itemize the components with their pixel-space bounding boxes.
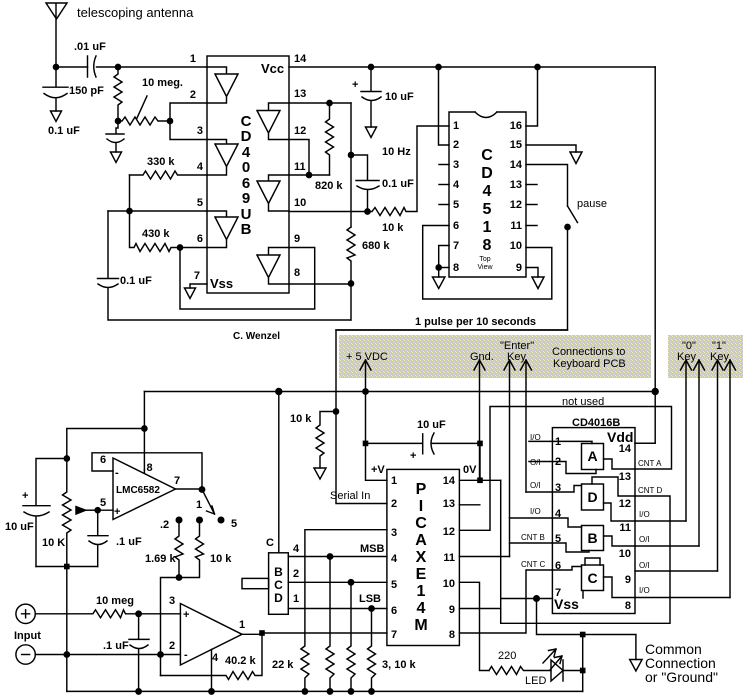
svg-text:CNT D: CNT D: [638, 486, 663, 495]
capacitor .01uF: [88, 56, 97, 77]
chip CD4016B box: [552, 428, 635, 614]
wire pin 15: [526, 145, 576, 152]
svg-text:MSB: MSB: [360, 543, 385, 555]
arrow Enter key 2: [521, 360, 532, 492]
svg-text:5: 5: [453, 199, 459, 211]
wire rail left end down to op-amp V+: [143, 392, 145, 471]
svg-text:1: 1: [555, 436, 561, 448]
ground: [570, 152, 582, 164]
svg-text:8: 8: [294, 267, 300, 279]
svg-text:13: 13: [619, 471, 631, 483]
svg-text:0V: 0V: [463, 464, 477, 476]
switch gain lever: [202, 490, 215, 515]
svg-text:P: P: [416, 481, 427, 498]
svg-text:+ 5 VDC: + 5 VDC: [346, 351, 388, 363]
svg-text:5: 5: [100, 497, 106, 509]
svg-text:12: 12: [294, 125, 306, 137]
node 10kA rail: [327, 689, 332, 694]
capacitor .1uF input: [129, 614, 149, 692]
svg-text:View: View: [477, 264, 493, 271]
node .1uF rail: [136, 689, 141, 694]
svg-text:7: 7: [194, 270, 200, 282]
ground: [185, 288, 196, 299]
resistor 10k A: [326, 557, 334, 692]
node rail pin2 CD4518: [436, 64, 441, 69]
node 430k right: [177, 245, 182, 250]
svg-text:B: B: [241, 221, 252, 238]
svg-text:3: 3: [453, 159, 459, 171]
label Top View: [477, 256, 493, 271]
svg-text:A: A: [415, 532, 427, 549]
node 0V square: [477, 478, 483, 484]
wire C output: [604, 577, 636, 598]
wire A lower step: [552, 462, 596, 474]
node 680k bottom: [348, 281, 353, 286]
wire pin14 0V: [459, 479, 500, 481]
svg-text:8: 8: [625, 600, 631, 612]
svg-text:0: 0: [242, 159, 250, 176]
node 10kC rail: [369, 689, 374, 694]
node 820k top: [327, 100, 332, 105]
svg-text:M: M: [414, 617, 427, 634]
svg-text:820 k: 820 k: [315, 180, 343, 192]
node serial 10k tap: [333, 409, 338, 414]
wire B input: [552, 518, 581, 527]
svg-text:5: 5: [483, 201, 492, 218]
svg-text:11: 11: [619, 522, 631, 534]
svg-text:-: -: [184, 649, 188, 661]
svg-text:6: 6: [391, 605, 397, 617]
svg-text:Connections to: Connections to: [552, 346, 625, 358]
node output square: [259, 630, 265, 636]
svg-text:A: A: [587, 448, 597, 464]
potentiometer 10K: [63, 459, 72, 567]
svg-text:Top: Top: [479, 256, 490, 263]
arrow 0 key 1: [681, 360, 692, 521]
node pin8: [436, 265, 441, 270]
resistor 40.2k feedback: [161, 634, 263, 679]
node input minus tie: [64, 652, 69, 657]
wire LSB pin1: [288, 608, 387, 610]
wire pin 10 to LED: [459, 582, 489, 670]
svg-text:14: 14: [510, 159, 523, 171]
node rail 10uF: [368, 64, 373, 69]
svg-text:O/I: O/I: [639, 561, 650, 570]
svg-text:O/I: O/I: [530, 458, 541, 467]
svg-text:3: 3: [391, 527, 397, 539]
wire C bottom: [582, 591, 584, 599]
svg-text:+: +: [183, 609, 189, 621]
svg-text:9: 9: [449, 604, 455, 616]
node 10meg right: [167, 118, 172, 123]
chip name CD4518 vertical: [481, 147, 493, 254]
svg-text:1: 1: [190, 53, 196, 65]
wire pin6 to pin9 tie: [180, 248, 315, 310]
node output: [199, 487, 204, 492]
arrow Enter key 1: [504, 360, 515, 557]
ground: [433, 277, 445, 289]
node 10kB rail: [348, 689, 353, 694]
svg-text:2: 2: [169, 640, 175, 652]
switch letters: [587, 448, 597, 586]
svg-text:pause: pause: [577, 198, 607, 210]
svg-text:2: 2: [453, 139, 459, 151]
resistor 10k serial pulldown: [316, 412, 336, 469]
wire op-amp2 output: [242, 633, 387, 634]
svg-text:Key: Key: [710, 351, 729, 363]
svg-text:12: 12: [619, 498, 631, 510]
svg-text:D: D: [274, 591, 283, 605]
node LED square: [580, 668, 586, 674]
svg-text:5: 5: [555, 533, 561, 545]
wire D input: [552, 486, 581, 493]
node 10uF right square: [477, 441, 483, 447]
svg-text:11: 11: [510, 220, 522, 232]
wire pin8 net: [289, 284, 351, 321]
wire pin 14 to pause switch: [526, 165, 568, 207]
LED D1: [551, 660, 563, 681]
wire pin 8: [439, 267, 449, 269]
svg-text:16: 16: [510, 120, 522, 132]
ground: [51, 111, 62, 122]
svg-text:8: 8: [449, 629, 455, 641]
inverter 2: [207, 140, 238, 176]
svg-text:8: 8: [483, 237, 492, 254]
svg-text:14: 14: [443, 475, 456, 487]
svg-text:4: 4: [197, 161, 204, 173]
node pin5: [127, 208, 132, 213]
wire 330k to pin5 node: [129, 175, 131, 211]
node pot top: [64, 456, 69, 461]
svg-text:1: 1: [417, 583, 426, 600]
svg-text:6: 6: [453, 220, 459, 232]
svg-text:10 uF: 10 uF: [385, 91, 414, 103]
svg-text:-: -: [115, 467, 119, 479]
svg-text:10 Hz: 10 Hz: [382, 146, 411, 158]
svg-text:13: 13: [443, 498, 455, 510]
wire C top notch: [585, 558, 600, 565]
switch tab BCD: [242, 578, 269, 588]
svg-text:Vss: Vss: [554, 596, 579, 612]
wire input minus: [35, 654, 160, 656]
inverter 3: [207, 211, 238, 248]
node gain node: [176, 575, 181, 580]
wire pin 5: [108, 210, 207, 212]
svg-text:C: C: [266, 537, 274, 549]
wire CD4518 pin16: [526, 67, 538, 126]
svg-text:.1 uF: .1 uF: [103, 640, 129, 652]
wire antenna to cap: [56, 66, 118, 68]
svg-text:13: 13: [510, 179, 522, 191]
svg-text:6: 6: [100, 454, 106, 466]
svg-text:D: D: [481, 165, 493, 182]
svg-text:7: 7: [391, 629, 397, 641]
wire feedback loop: [92, 453, 202, 490]
svg-text:C: C: [481, 147, 493, 164]
svg-text:LMC6582: LMC6582: [116, 485, 160, 496]
wire pot bottom tie: [36, 566, 98, 568]
pot wiper arrow: [85, 509, 98, 511]
resistor 10k C: [368, 609, 376, 692]
node rail right riser: [652, 389, 658, 395]
wire A output: [604, 459, 636, 469]
pin 4 stub: [439, 184, 449, 186]
op-amp U2: [180, 604, 242, 666]
svg-text:4: 4: [212, 652, 219, 664]
node op-amp2 inverting: [158, 652, 163, 657]
op-amp U1 LMC6582: [113, 458, 176, 520]
chip PICAXE14M box: [387, 469, 460, 645]
svg-text:.2: .2: [160, 519, 169, 531]
resistor 10 meg input: [35, 610, 138, 618]
pin 13 stub: [526, 184, 537, 186]
svg-text:430 k: 430 k: [142, 228, 170, 240]
arrow 0 key 2: [694, 360, 705, 546]
capacitor 10uF left: [23, 459, 67, 567]
node rail +V riser: [363, 389, 368, 394]
ground: [532, 277, 544, 289]
svg-text:3, 10 k: 3, 10 k: [382, 659, 417, 671]
svg-text:CNT C: CNT C: [521, 560, 546, 569]
svg-text:4: 4: [417, 600, 426, 617]
wire I/O row to 1 key: [635, 597, 730, 599]
switch pause lever: [568, 206, 578, 223]
node pin11: [306, 172, 311, 177]
svg-text:Input: Input: [14, 630, 41, 642]
wire A input: [552, 441, 592, 443]
svg-text:3: 3: [169, 595, 175, 607]
switch box C: [582, 565, 604, 591]
wire op-amp V+ pin8 touch: [143, 470, 145, 473]
svg-text:telescoping antenna: telescoping antenna: [77, 5, 194, 20]
svg-text:3: 3: [197, 125, 203, 137]
wire 0V riser segment: [479, 443, 481, 480]
wire branch to pot top: [67, 429, 145, 459]
op-amp chip CD4069UB box: [207, 56, 289, 293]
wire LED to common: [563, 670, 583, 672]
svg-text:CD4016B: CD4016B: [572, 417, 620, 429]
node pot bottom: [64, 564, 70, 570]
node op-amp supply branch: [142, 426, 147, 431]
node wiper: [95, 508, 100, 513]
chip BCD box: [269, 553, 289, 615]
svg-text:6: 6: [197, 233, 203, 245]
ground: [366, 127, 377, 138]
arrow +5VDC: [360, 360, 371, 392]
svg-text:C. Wenzel: C. Wenzel: [233, 331, 280, 342]
label Common Connection or Ground: [645, 641, 718, 685]
svg-text:10 k: 10 k: [290, 413, 312, 425]
svg-text:4: 4: [293, 543, 300, 555]
resistor 22k: [301, 530, 387, 692]
svg-text:330 k: 330 k: [147, 156, 175, 168]
svg-text:Vdd: Vdd: [607, 429, 633, 445]
svg-text:.01 uF: .01 uF: [74, 41, 106, 53]
svg-text:2: 2: [391, 498, 397, 510]
wire pin 7 Vss: [501, 598, 553, 600]
svg-text:B: B: [587, 530, 597, 546]
svg-text:0.1 uF: 0.1 uF: [120, 275, 152, 287]
node position 5: [218, 517, 224, 523]
svg-text:LSB: LSB: [359, 593, 381, 605]
pin 5 stub: [439, 204, 449, 206]
wire common to ground: [583, 635, 636, 660]
svg-text:2: 2: [190, 89, 196, 101]
svg-text:E: E: [416, 566, 427, 583]
svg-text:15: 15: [510, 139, 522, 151]
svg-text:1: 1: [391, 475, 397, 487]
svg-text:CNT A: CNT A: [638, 459, 662, 468]
node cap junction: [115, 64, 120, 69]
pin 1 stub: [529, 440, 552, 442]
node 10meg bottom: [115, 118, 120, 123]
wire 0V down leg: [501, 480, 670, 623]
node pause contact: [565, 224, 570, 229]
svg-text:2: 2: [555, 456, 561, 468]
wire Vss to common: [537, 599, 583, 635]
node 22k rail: [302, 689, 307, 694]
wire pause to serial in: [336, 227, 568, 504]
ground common: [630, 660, 642, 672]
callout line 10 meg: [137, 96, 147, 118]
capacitor 10uF top: [361, 67, 381, 127]
svg-text:Gnd.: Gnd.: [470, 351, 494, 363]
svg-text:8: 8: [147, 462, 153, 474]
resistor 820k: [326, 103, 334, 175]
arrow 1 key 1: [712, 360, 723, 571]
wire pin 9: [526, 268, 538, 278]
wire pins 7-8: [439, 246, 449, 278]
wire op-amp2 inverting input: [161, 654, 181, 656]
wire Vcc rail: [118, 66, 655, 68]
capacitor 0.1uF mid: [351, 155, 379, 212]
svg-text:9: 9: [516, 262, 522, 274]
svg-text:10: 10: [510, 240, 522, 252]
wire to op-amp2 plus: [139, 613, 181, 615]
resistor 430k: [130, 211, 181, 252]
wire gain node to inverting input: [161, 578, 180, 676]
switch box D: [582, 484, 604, 510]
svg-text:1: 1: [453, 120, 459, 132]
node input RC: [136, 611, 141, 616]
svg-text:14: 14: [294, 53, 307, 65]
wire +V riser: [366, 392, 387, 481]
resistor 330k: [130, 171, 208, 179]
svg-text:0.1 uF: 0.1 uF: [382, 178, 414, 190]
resistor 10 meg horizontal: [118, 117, 170, 125]
svg-text:+: +: [114, 506, 120, 518]
wire pin 3: [526, 491, 552, 493]
wire pin 9: [459, 608, 500, 610]
svg-text:12: 12: [443, 526, 455, 538]
svg-text:Keyboard PCB: Keyboard PCB: [553, 358, 626, 370]
wire pin 13 net: [289, 102, 351, 104]
banner top border: [336, 329, 568, 331]
svg-text:.1 uF: .1 uF: [116, 536, 142, 548]
ground: [111, 152, 122, 163]
wire pin 7 and ground: [190, 284, 207, 288]
svg-text:11: 11: [443, 552, 455, 564]
svg-text:X: X: [416, 549, 427, 566]
node antenna junction: [53, 64, 58, 69]
wire B control step: [552, 543, 589, 552]
pin 3 stub: [439, 164, 449, 166]
pin 13 stub: [459, 504, 479, 506]
svg-text:+: +: [410, 450, 416, 462]
svg-text:10: 10: [619, 548, 631, 560]
wire pin 5 CNT B: [510, 542, 553, 544]
svg-text:2: 2: [293, 568, 299, 580]
wire I/O row to 0 key: [635, 520, 686, 522]
wire pin 10 net with 10k: [289, 126, 449, 216]
svg-text:I/O: I/O: [639, 586, 650, 595]
svg-text:5: 5: [197, 197, 203, 209]
svg-text:Key: Key: [507, 351, 526, 363]
svg-text:10 meg: 10 meg: [96, 595, 134, 607]
svg-text:+: +: [352, 79, 358, 91]
resistor 1.69k: [175, 520, 183, 578]
pin 2 stub: [529, 461, 552, 463]
svg-text:6: 6: [555, 560, 561, 572]
wire +5V rail: [144, 391, 655, 393]
resistor 220: [489, 667, 551, 675]
capacitor 0.1uF left column: [98, 211, 351, 320]
svg-text:4: 4: [453, 179, 460, 191]
wire pin 4: [510, 517, 553, 519]
LED light arrows: [543, 649, 556, 663]
chip notch: [475, 112, 497, 118]
svg-text:D: D: [241, 128, 252, 145]
svg-text:I/O: I/O: [639, 510, 650, 519]
svg-text:10: 10: [443, 578, 455, 590]
svg-text:+: +: [22, 490, 28, 502]
svg-text:CNT B: CNT B: [521, 533, 545, 542]
inverter 4: [257, 103, 289, 140]
svg-text:4: 4: [483, 183, 492, 200]
capacitor 150pF: [43, 67, 68, 111]
svg-text:C: C: [415, 515, 427, 532]
wire pins 11-12 tie: [289, 140, 330, 176]
node common square: [580, 632, 586, 638]
svg-text:10 uF: 10 uF: [417, 419, 446, 431]
wire O/I row to 1 key: [635, 570, 718, 572]
node position .2: [176, 517, 182, 523]
capacitor .1uF wiper: [88, 510, 108, 566]
svg-text:3: 3: [555, 482, 561, 494]
svg-text:9: 9: [625, 574, 631, 586]
resistor 680k: [347, 227, 355, 284]
terminal Input plus: [16, 604, 35, 623]
svg-text:220: 220: [498, 650, 516, 662]
terminal Input minus: [16, 645, 35, 664]
chip letters PICAXE14M: [414, 481, 427, 634]
wire output: [176, 488, 203, 490]
arrow Gnd: [474, 360, 485, 480]
svg-text:B: B: [274, 565, 283, 579]
wire Vdd out: [635, 442, 655, 444]
wire O/I row to 0 key: [635, 545, 699, 547]
svg-text:1 pulse per 10 seconds: 1 pulse per 10 seconds: [415, 316, 536, 328]
node MSB pulldown: [327, 554, 332, 559]
svg-text:or "Ground": or "Ground": [645, 669, 718, 685]
svg-text:10: 10: [294, 197, 306, 209]
wire pin4 stub to rail: [211, 650, 213, 692]
wire pins 2-3 tie: [170, 103, 207, 140]
capacitor 0.1uF top-left: [106, 121, 124, 152]
svg-text:11: 11: [294, 161, 306, 173]
svg-text:Vcc: Vcc: [261, 61, 284, 76]
svg-text:1.69 k: 1.69 k: [145, 553, 176, 565]
